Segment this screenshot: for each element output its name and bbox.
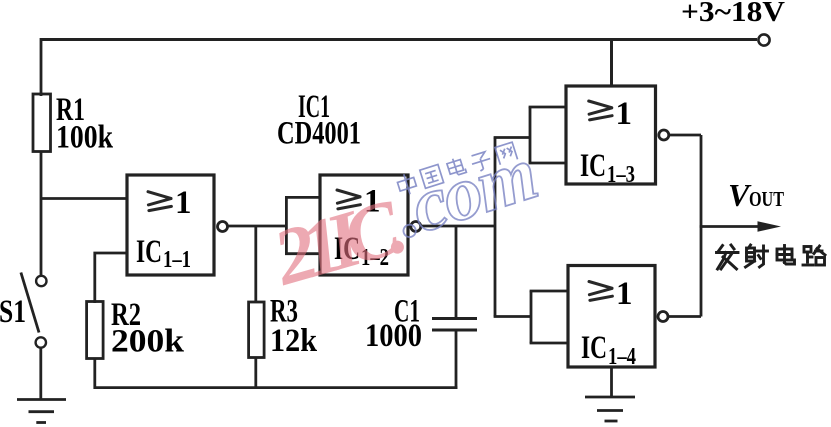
resistor R2: [87, 302, 104, 359]
switch S1: [36, 276, 46, 286]
ground (below S1): [17, 400, 66, 423]
wire: IC1-3 output to bus: [669, 134, 701, 137]
wire: R2 bottom: [93, 359, 96, 390]
svg-text:200k: 200k: [111, 324, 185, 360]
resistor R1: [33, 94, 51, 152]
wire: C1 bottom: [455, 330, 458, 389]
svg-text:1–4: 1–4: [608, 344, 636, 370]
svg-text:OUT: OUT: [749, 187, 784, 211]
char 发: [717, 245, 739, 269]
char 射: [746, 245, 768, 267]
svg-text:1000: 1000: [365, 318, 422, 354]
wire: IC1-4 output to bus: [668, 315, 701, 318]
char 子: [470, 151, 493, 173]
wire: IC1-2 input loop: [285, 197, 320, 253]
wire: IC1-2 output node: [421, 225, 495, 228]
char 电: [777, 246, 795, 265]
svg-text:IC: IC: [580, 148, 606, 184]
output arrow: [700, 225, 760, 228]
svg-text:+3~18V: +3~18V: [681, 0, 785, 28]
svg-text:100k: 100k: [56, 120, 114, 156]
wire: lower branch to IC1-4: [494, 315, 531, 318]
char 中: [396, 172, 419, 197]
wire: upper branch to IC1-3: [494, 136, 530, 139]
resistor R3: [249, 302, 265, 358]
wire: R2 to IC1-1 input 2: [95, 253, 127, 303]
wire: rail drop to IC1-3: [610, 40, 613, 88]
svg-text:1: 1: [616, 96, 633, 132]
svg-text:.com: .com: [385, 131, 546, 254]
inverter bubble IC1-4 output: [658, 312, 668, 322]
wire: node to IC1-3 / IC1-4 split: [494, 138, 497, 317]
svg-text:IC: IC: [136, 234, 162, 270]
wire: left vertical from rail to R1: [40, 38, 43, 96]
supply terminal: [758, 34, 769, 45]
svg-text:1–1: 1–1: [163, 247, 191, 273]
inverter bubble IC1-3 output: [659, 130, 669, 140]
watermark 21IC (red): [264, 183, 411, 303]
wire: IC1-4 input loop: [530, 291, 568, 343]
svg-text:1: 1: [175, 185, 192, 221]
wire: output bus vertical: [700, 135, 703, 317]
wire: top supply rail: [41, 38, 757, 41]
gate IC1-2: [320, 175, 408, 275]
svg-text:IC: IC: [581, 330, 607, 366]
char 电: [446, 156, 466, 177]
wire: R3 bottom: [254, 358, 257, 390]
char 国: [420, 164, 444, 188]
inverter bubble IC1-1 output: [218, 222, 228, 232]
wire: IC1-3 input loop: [529, 107, 566, 163]
watermark .com (blue script): [385, 131, 546, 254]
wire: IC1-4 ground pin: [610, 367, 613, 397]
svg-text:1: 1: [616, 276, 633, 312]
gate IC1-3: [566, 86, 656, 184]
wire: tap to C1: [455, 226, 458, 319]
watermark 中国电子网 (blue outline): [396, 140, 518, 197]
gate IC1-4: [568, 266, 655, 368]
label 发射电路 (transmit circuit): [717, 245, 826, 269]
char 网: [495, 142, 518, 165]
gate IC1-1: [127, 175, 214, 275]
svg-text:1–3: 1–3: [607, 162, 635, 188]
capacitor C1: [432, 319, 477, 331]
wire: tap to R3: [254, 226, 257, 303]
wire: bottom net R2-R3-C1: [94, 386, 458, 389]
svg-text:12k: 12k: [270, 323, 318, 359]
wire: IC1-1 output to IC1-2: [228, 225, 286, 228]
svg-text:S1: S1: [0, 294, 26, 330]
inverter bubble IC1-2 output: [411, 222, 421, 232]
svg-text:CD4001: CD4001: [277, 116, 361, 152]
wire: R1 bottom to S1 node: [40, 152, 43, 277]
wire: S1 to ground: [39, 348, 42, 399]
char 路: [803, 246, 825, 265]
wire: node A to IC1-1 input 1: [41, 197, 127, 200]
ground (below IC1-4): [585, 397, 635, 421]
